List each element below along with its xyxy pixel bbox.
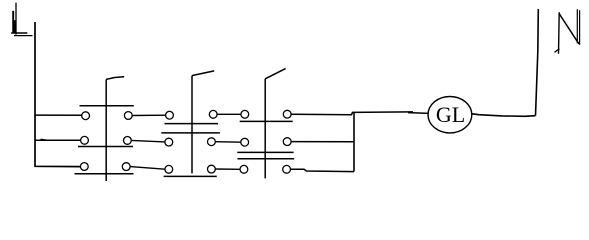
contact row1 pos1 left terminal — [82, 112, 90, 120]
switch position 2 actuator stem — [191, 76, 193, 174]
contact row3 pos2 left terminal — [165, 165, 173, 173]
switch position 3 bridge bar row 3 — [238, 158, 295, 160]
wire: row 3 between pos2 and pos3 — [215, 168, 240, 170]
wire: row 2 between pos2 and pos3 — [215, 141, 241, 144]
contact row1 pos2 left terminal — [166, 111, 174, 119]
contact row2 pos1 right terminal — [124, 137, 132, 145]
contact row2 pos3 right terminal — [283, 138, 291, 146]
contact row2 pos1 left terminal — [81, 136, 89, 144]
switch position 1 bridge bar row 3 — [75, 173, 134, 175]
switch position 2 bridge bar row 2 — [161, 132, 220, 134]
contact row3 pos1 right terminal — [122, 163, 130, 171]
wire: row 2 between pos1 and pos2 — [131, 140, 165, 142]
wire: lamp feed segment — [408, 112, 429, 115]
wire: output junction vertical — [353, 113, 355, 172]
contact row1 pos1 right terminal — [124, 112, 132, 120]
switch position 3 bridge bar row 1 — [240, 120, 293, 122]
contact row2 pos2 right terminal — [208, 138, 216, 146]
wire: row 2 output to junction — [291, 141, 354, 143]
switch position 1 handle — [106, 77, 124, 80]
switch position 3 handle — [265, 69, 285, 79]
switch position 1 actuator stem — [105, 79, 107, 181]
neutral line label N — [555, 10, 580, 53]
wire: N supply vertical — [536, 9, 539, 116]
wire: row 1 output to lamp node — [291, 112, 413, 115]
switch position 2 bridge bar row 1 — [165, 123, 219, 125]
switch position 1 bridge bar row 1 — [80, 105, 134, 107]
contact row3 pos3 left terminal — [240, 165, 248, 173]
contact row1 pos2 right terminal — [209, 110, 217, 118]
wire: L supply bus vertical — [35, 22, 81, 167]
wire: row 1 between pos2 and pos3 — [217, 113, 241, 115]
switch position 2 bridge bar row 3 — [164, 175, 217, 177]
wire: row 2 feed from L bus — [35, 139, 81, 141]
contact row1 pos3 right terminal — [283, 110, 291, 118]
contact row1 pos3 left terminal — [241, 110, 249, 118]
svg-text:GL: GL — [436, 102, 465, 127]
switch position 3 actuator stem — [264, 79, 266, 179]
wire: row 1 between pos1 and pos2 — [132, 114, 165, 116]
switch position 1 bridge bar row 2 — [78, 146, 133, 148]
wire: row 3 output to junction — [291, 169, 355, 171]
contact row3 pos1 left terminal — [80, 163, 88, 171]
wire: row 3 between pos1 and pos2 — [130, 167, 165, 170]
wire: row 1 feed from L bus — [35, 114, 82, 116]
contact row3 pos2 right terminal — [208, 165, 216, 173]
phase line label L — [12, 3, 32, 35]
contact row2 pos2 left terminal — [165, 138, 173, 146]
switch position 3 bridge bar row 2 — [237, 151, 293, 153]
switch position 2 handle — [192, 71, 214, 76]
lamp GL body — [428, 97, 472, 133]
contact row2 pos3 left terminal — [241, 138, 249, 146]
wire: small stray tick on row 2 feed — [41, 138, 48, 141]
contact row3 pos3 right terminal — [283, 165, 291, 173]
wire: lamp to N vertical — [471, 114, 535, 117]
